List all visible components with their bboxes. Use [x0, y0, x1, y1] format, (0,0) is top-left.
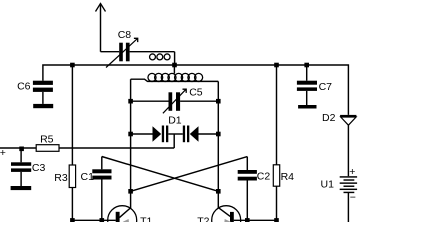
wire left rail to C5: [131, 100, 169, 102]
node R3 bottom junction: [70, 218, 75, 223]
resistor R4: [273, 165, 294, 186]
svg-text:D1: D1: [168, 115, 182, 127]
node T2 collector junction: [216, 189, 221, 194]
wire C5 to right rail: [180, 100, 218, 102]
wire D2 to battery: [347, 125, 349, 176]
svg-text:C5: C5: [189, 87, 203, 99]
svg-text:−: −: [350, 192, 356, 204]
capacitor C8 (variable): [106, 29, 138, 68]
wire L2 center tap to bus: [173, 65, 175, 74]
svg-text:C6: C6: [17, 81, 31, 93]
ground under C3: [11, 186, 32, 190]
resistor R3: [54, 165, 75, 188]
capacitor C7: [297, 81, 332, 93]
wire right vertical rail: [217, 81, 219, 208]
svg-text:D2: D2: [322, 112, 336, 124]
wire C1 top to T2 collector (diagonal): [102, 157, 219, 192]
wire L1 down to bus: [174, 52, 176, 65]
svg-text:T1: T1: [140, 215, 152, 222]
wire R3 to bottom: [71, 188, 73, 221]
battery U1: [321, 166, 358, 204]
svg-text:C8: C8: [118, 29, 132, 41]
wire left rail to D1: [131, 133, 153, 135]
capacitor C1: [81, 157, 112, 221]
wire left vertical rail: [130, 79, 132, 208]
svg-text:T2: T2: [197, 215, 209, 222]
wire C8 to inductor L1: [130, 51, 175, 53]
wire bus to R4: [276, 65, 278, 165]
node T1 collector junction: [128, 189, 133, 194]
wire C3 to ground: [20, 172, 22, 186]
wire D1 center tap: [173, 134, 175, 148]
wire top bus with corners to C6 and D2: [43, 65, 349, 115]
node D1 right junction: [216, 132, 221, 137]
wire bottom right (base T2): [234, 219, 277, 221]
node C2 bottom junction: [245, 218, 250, 223]
node C5 left junction: [128, 99, 133, 104]
diode D2: [322, 112, 356, 125]
transistor T2: [197, 206, 241, 235]
antenna: [100, 4, 102, 52]
node input/C3 junction: [19, 147, 24, 152]
capacitor C3: [11, 148, 45, 174]
wire bottom left (base T1): [72, 219, 115, 221]
ground under C7: [298, 105, 316, 109]
diode D1 (dual varicap): [153, 115, 199, 143]
svg-text:U1: U1: [321, 178, 335, 190]
node bus/R4 junction: [274, 63, 279, 68]
inductor L2 (8 turns, center tapped): [131, 73, 219, 81]
wire bus to C7: [306, 65, 308, 81]
capacitor C6: [17, 81, 53, 93]
resistor R5: [36, 134, 59, 152]
wire R5 to D1 center tap: [59, 147, 174, 149]
wire R4 to bottom: [276, 186, 278, 220]
wire C6 to ground: [42, 92, 44, 104]
capacitor C2: [238, 157, 271, 221]
svg-text:C7: C7: [319, 81, 333, 93]
node R4 bottom junction: [274, 218, 279, 223]
svg-text:+: +: [349, 166, 355, 178]
node bus/C7 junction: [304, 63, 309, 68]
wire antenna to C8: [101, 51, 120, 53]
capacitor C5 (variable): [163, 87, 203, 114]
wire input to R5: [0, 147, 36, 149]
svg-text:R3: R3: [54, 172, 68, 184]
node bus/R3 junction: [70, 63, 75, 68]
inductor L1 (3 turns): [150, 54, 171, 60]
node D1 left junction: [128, 132, 133, 137]
ground under C6: [33, 104, 53, 108]
svg-text:C1: C1: [81, 171, 95, 183]
wire D1 to right rail: [199, 133, 219, 135]
svg-text:R4: R4: [281, 171, 295, 183]
node C1 bottom junction: [100, 218, 105, 223]
svg-text:C3: C3: [32, 162, 46, 174]
svg-text:C2: C2: [257, 171, 271, 183]
wire C2 top to T1 collector (diagonal): [131, 157, 248, 192]
svg-text:R5: R5: [40, 134, 54, 146]
node C5 right junction: [216, 99, 221, 104]
wire bus to R3: [71, 65, 73, 165]
node bus/L1 junction: [172, 63, 177, 68]
transistor T1: [108, 206, 153, 235]
wire battery to bottom edge: [347, 193, 349, 222]
wire C7 to ground: [306, 91, 308, 105]
